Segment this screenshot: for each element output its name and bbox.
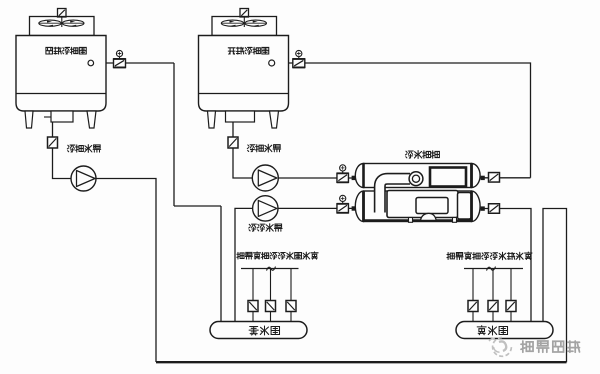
valve V7 (condenser outlet): [489, 173, 500, 183]
wire: tower T1 drain down through valve V2 to pump P1: [53, 122, 72, 179]
chiller condenser shell (upper vessel): [355, 164, 480, 188]
chiller mounting tab 2: [453, 218, 457, 223]
chiller suction flange circle: [409, 172, 423, 186]
valve collector branch 3: [286, 301, 296, 312]
cooling tower T1 closed: left leg: [25, 111, 33, 128]
chiller bottom dome bump: [421, 213, 437, 220]
chiller unit label: 冷水机组: [405, 151, 413, 158]
watermark logo swirl: [489, 338, 511, 357]
cooling tower T1 closed: right leg: [87, 111, 96, 128]
supply header break squiggle: [487, 267, 496, 271]
label: 机房空调冷冻水供水管 (supply header): [447, 253, 454, 260]
pump P2 cooling-water pump (T2): [252, 165, 278, 191]
valve V6 (evaporator inlet, actuated): [337, 195, 349, 213]
valve V2 (T1 drain): [48, 137, 58, 148]
chiller evaporator shell (lower vessel): [355, 191, 480, 222]
wire: horizontal y=206 from x174 to x221: [174, 205, 221, 207]
valve distributor branch 2: [488, 301, 498, 312]
wire: tower T2 top outlet across to x530.5 and down to condenser right: [275, 63, 531, 178]
distributor vessel 分水器: [456, 322, 553, 339]
wire: condenser right nozzle to valve V7 and corner x530.5: [480, 177, 531, 179]
wire: tower T1 top outlet to valve V1 and across to down-corner: [94, 62, 174, 64]
valve distributor branch 3: [506, 301, 516, 312]
wire: collector to pump P3 suction: [235, 208, 253, 322]
wire: pump P2 outlet to condenser left nozzle through valve V5: [278, 177, 357, 179]
chiller suction pipe (n-shaped tube): [380, 179, 411, 213]
tower T1 sump box: [51, 111, 73, 122]
label: 机房空调冷冻水回水管 (return header): [237, 252, 244, 259]
cooling tower T2 open: right leg: [270, 111, 279, 128]
cooling tower T1 closed: body: [16, 36, 106, 112]
condenser left nozzle nub: [352, 176, 356, 180]
tower T2 sump box: [226, 111, 255, 122]
wire: supply header line y=268.5: [464, 268, 523, 270]
wire: return branch 2: [270, 269, 272, 323]
label: 分水器: [477, 326, 486, 335]
node: tower T2 outlet port circle: [269, 60, 275, 66]
wire: return header line y=268.5: [241, 268, 299, 270]
cooling tower T2 open: motor stem: [243, 17, 245, 27]
wire: vertical drop x=174 from y63 to y206: [173, 63, 175, 206]
chiller tube sheets redrawn: [364, 164, 472, 222]
wire: return branch 1: [252, 269, 254, 323]
wire: tower T2 drain down through valve V4 to pump P2: [233, 122, 253, 178]
valve collector branch 2: [266, 301, 276, 312]
wire: pump P3 outlet to evaporator left nozzle through valve V6: [278, 207, 357, 209]
chiller mounting tab 1: [409, 218, 413, 223]
chiller control panel (dark框 top right): [430, 168, 466, 187]
pump P3 chilled-water pump: [253, 196, 278, 221]
condenser right nozzle nub: [481, 176, 485, 180]
cooling tower T1 closed: fan blade right: [62, 20, 84, 26]
collector vessel 集水器: [210, 322, 307, 339]
label: 冷却水泵 (P1): [67, 145, 75, 152]
wire: bottom main pipe y=362: [156, 361, 567, 363]
chiller compressor housing box: [387, 191, 458, 218]
valve V8 (evaporator outlet): [489, 204, 500, 214]
pump P1 cooling-water pump (T1): [71, 166, 96, 191]
valve V5 (condenser inlet, actuated): [337, 165, 349, 183]
evaporator left nozzle nub: [352, 206, 356, 210]
cooling tower T2 open: fan blade right: [245, 20, 267, 26]
valve V3 (T2 outlet, with actuator): [293, 50, 306, 67]
label: 冷却水泵 (P2): [247, 145, 255, 152]
valve V4 (T2 drain): [228, 137, 238, 148]
wire: vertical x=221 down into collector: [220, 206, 222, 322]
wire: pump P1 outlet right then down to bottom main: [96, 179, 156, 363]
cooling tower T2 open: fan blade left: [221, 20, 243, 26]
tower T1 sump tick: [44, 116, 51, 118]
wire: supply branch 3: [510, 269, 512, 323]
cooling tower T1 closed: basin separator line: [16, 93, 106, 95]
cooling tower T2 open: left leg: [208, 111, 216, 128]
evaporator right nozzle nub: [481, 206, 485, 210]
node: tower T1 outlet port circle: [88, 60, 94, 66]
label: 集水器: [249, 327, 258, 336]
chiller bottom rail (thick): [364, 219, 472, 221]
valve collector branch 1: [248, 301, 258, 312]
wire: evaporator right nozzle through valve V8 then down to distributor: [480, 209, 532, 323]
label: 冷冻水泵 (P3): [249, 224, 257, 231]
valve V1 (T1 outlet, with actuator): [113, 50, 126, 67]
return header break squiggle: [267, 267, 276, 271]
cooling tower T1 closed: motor stem: [61, 17, 63, 27]
cooling tower T2 open: body: [199, 36, 289, 112]
wire: return branch 3: [290, 269, 292, 323]
wire: free-cooling riser loop to distributor: [543, 209, 567, 363]
wire: supply branch 2: [492, 269, 494, 323]
valve distributor branch 1: [468, 301, 478, 312]
chiller right-side cabinet box: [458, 193, 472, 220]
cooling tower T2 open: basin separator line: [199, 93, 289, 95]
cooling tower T2 open: fan motor box: [240, 9, 249, 18]
cooling tower T2 open: label T2 open: [228, 48, 235, 54]
cooling tower T1 closed: fan motor box: [58, 9, 67, 18]
cooling tower T1 closed: fan blade left: [39, 20, 61, 26]
wire: supply branch 1: [472, 269, 474, 323]
chiller display panel: [416, 198, 448, 214]
cooling tower T2 open: fan housing: [212, 17, 277, 36]
cooling tower T1 closed: label T1 closed: [46, 47, 53, 54]
watermark text 机房百科: [521, 341, 533, 352]
cooling tower T1 closed: fan housing: [30, 17, 95, 36]
